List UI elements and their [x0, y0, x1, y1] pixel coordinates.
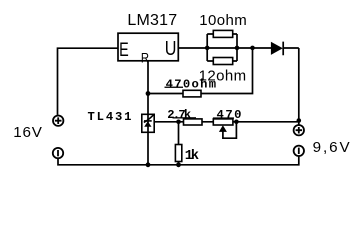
svg-text:10ohm: 10ohm [199, 12, 247, 29]
svg-text:1k: 1k [185, 148, 199, 164]
svg-text:9,6V: 9,6V [313, 139, 351, 156]
svg-text:R: R [141, 50, 149, 65]
svg-text:470: 470 [217, 108, 242, 122]
svg-text:16V: 16V [13, 124, 43, 141]
svg-text:LM317: LM317 [127, 12, 177, 29]
svg-text:TL431: TL431 [88, 110, 132, 124]
svg-text:2.7k: 2.7k [167, 108, 191, 122]
svg-text:U: U [165, 38, 177, 60]
svg-text:E: E [119, 39, 129, 61]
